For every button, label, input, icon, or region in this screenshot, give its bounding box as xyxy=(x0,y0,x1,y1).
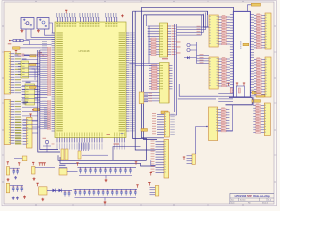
top horizontal bus A xyxy=(142,7,234,11)
net label mid U4 xyxy=(243,43,249,46)
mid bus pair A xyxy=(142,7,165,138)
wire to J6 xyxy=(196,126,208,154)
left pins of U1 xyxy=(40,33,63,132)
wire X2 to MCU pin xyxy=(49,23,55,33)
power flag below J5 ladder xyxy=(150,173,152,176)
vertical wire left of U2 xyxy=(149,26,160,64)
U4 part name text xyxy=(241,40,243,49)
capacitor C9 xyxy=(64,190,67,196)
right pins of U1 xyxy=(119,33,135,132)
ground array1 xyxy=(105,179,108,182)
bus below U4 A xyxy=(229,96,252,98)
wires J9 lower xyxy=(218,94,233,102)
power flag P1 xyxy=(7,162,9,165)
power flag cross at U1 top-right xyxy=(121,14,124,17)
diode D1 xyxy=(176,53,197,60)
svg-text:Number: Number xyxy=(240,199,246,201)
capacitor C4x in X2 xyxy=(45,25,47,26)
pins of connector J10 xyxy=(218,108,230,132)
resistor R7 xyxy=(230,88,232,93)
net label under U3 xyxy=(161,111,168,114)
wire U3 to J9 A xyxy=(179,84,218,96)
U1 part number text xyxy=(79,49,90,53)
small box P6 xyxy=(14,156,27,161)
oscillator circle X2 xyxy=(42,21,45,24)
left bus wire B xyxy=(40,50,58,150)
capacitor C10 xyxy=(68,190,71,196)
capacitor C1 in X1 xyxy=(23,19,26,21)
vertical wires right of U2 U3 xyxy=(164,24,177,115)
U1 refdes text xyxy=(57,25,61,28)
power flags below U4 xyxy=(227,83,245,86)
wire U3 to J9 B xyxy=(178,98,216,100)
net label near U5 xyxy=(30,63,37,65)
pins of connector J13 xyxy=(253,104,264,134)
mid bus pair B xyxy=(144,15,158,140)
text marks inside U1 bottom xyxy=(107,133,124,135)
net label near U6 xyxy=(30,86,37,88)
diode D3 xyxy=(59,189,62,193)
net texts upper left of U1 xyxy=(42,41,47,48)
connector J2 xyxy=(4,100,10,145)
pins of connector J11 xyxy=(254,14,265,49)
vertical feed above U2 xyxy=(146,15,148,26)
junction dot L1 xyxy=(8,40,12,44)
net label right of U4 A xyxy=(250,91,260,94)
ground P2 xyxy=(33,177,36,180)
transistor Q1 xyxy=(176,42,197,47)
decoupling capacitor array 1 xyxy=(78,167,137,178)
power flag array2 right xyxy=(136,185,138,188)
wire P2 xyxy=(35,167,55,169)
resistor pack RP3 xyxy=(78,151,81,159)
sub box outline xyxy=(236,86,244,97)
wires J3 to bus xyxy=(32,121,40,133)
regulator VR1 xyxy=(6,167,9,175)
ground X1 xyxy=(21,29,24,32)
wires into J8 left pins upper xyxy=(177,11,208,35)
connector J6 xyxy=(192,154,195,165)
pins of connector J8 xyxy=(218,15,230,45)
svg-text:LPC2138: LPC2138 xyxy=(79,49,90,53)
pins of connector J2 xyxy=(11,101,22,144)
long wire under U1 B xyxy=(60,157,156,166)
wires into J8 left pins lower xyxy=(197,54,210,63)
pins of U2 xyxy=(148,26,176,56)
wire P1 xyxy=(10,167,20,169)
IC U5 xyxy=(21,59,29,78)
pins of connector J9 xyxy=(218,57,230,87)
wires under U1 xyxy=(79,143,108,156)
pins of connector J6 xyxy=(187,156,193,164)
sheet border outer xyxy=(2,1,277,206)
bottom pins of U1 xyxy=(57,133,125,150)
regulator VR3 xyxy=(39,187,47,195)
resistor R8 xyxy=(238,88,240,93)
bus below U4 B xyxy=(226,97,253,105)
top horizontal bus C xyxy=(144,15,210,27)
power flag P2 xyxy=(32,162,34,165)
resistor pack RP1 xyxy=(61,149,64,160)
ground array2 xyxy=(104,201,107,204)
ground P1b xyxy=(14,176,17,179)
pins of connector J1 xyxy=(11,53,22,93)
svg-text:'MX': 'MX' xyxy=(247,194,253,198)
ground X2 xyxy=(37,29,40,32)
pins of U4 xyxy=(230,15,254,93)
svg-text:K9F2808: K9F2808 xyxy=(241,40,243,49)
wire X2 bottom to MCU xyxy=(45,29,56,35)
wire U9 right xyxy=(67,170,78,172)
IC U6 xyxy=(25,82,35,105)
left bus wire A xyxy=(38,50,60,152)
power flag at U1 top-left xyxy=(65,10,67,13)
power flag array1 right xyxy=(135,162,137,165)
ground P1 xyxy=(7,178,10,181)
pins of U3 xyxy=(144,65,173,101)
sheet border inner xyxy=(4,2,274,204)
IC U9 xyxy=(59,168,67,175)
value text under U2 xyxy=(162,58,168,59)
label U9 xyxy=(59,165,66,166)
capacitor C5 xyxy=(16,168,19,174)
wires U1 to U2 U3 xyxy=(129,64,157,66)
transistor Q2 xyxy=(176,47,197,52)
junction dots J10 wires xyxy=(218,130,233,131)
resistor pack RP2 xyxy=(65,149,68,160)
inductor L1 xyxy=(11,39,30,41)
power flag P1b xyxy=(18,163,20,166)
wire U5 to bus xyxy=(32,64,38,81)
wire Q cluster vertical xyxy=(196,42,198,64)
power flag above J3 xyxy=(29,114,31,117)
resistor R1 xyxy=(15,54,30,56)
bus wire right of U1 A xyxy=(133,11,147,160)
decoupling capacitor array 2 xyxy=(74,189,138,200)
net label X-left xyxy=(13,47,21,49)
crystal circuit X1 loop xyxy=(21,18,34,30)
capacitor C4 xyxy=(13,168,16,174)
diode D2 xyxy=(53,189,56,193)
connector J7 xyxy=(155,186,159,197)
connector J9 xyxy=(209,57,218,89)
wires J1/J2 ladder to bus xyxy=(22,55,38,129)
text under U6 xyxy=(23,102,29,105)
net label top-left row xyxy=(30,55,36,57)
pins of connector J4 xyxy=(152,113,175,135)
wire P4 xyxy=(47,189,72,191)
IC U4 body xyxy=(233,11,250,97)
pins of connector J3 xyxy=(15,119,27,144)
wire into J5 ladder xyxy=(151,160,156,165)
pins of U5 xyxy=(18,63,40,75)
power flag array1 left xyxy=(76,163,78,166)
net name texts left of MCU lower pins xyxy=(44,108,50,129)
ground P3b xyxy=(12,197,19,200)
wire X1 left to MCU xyxy=(26,29,55,39)
top pins of U1 xyxy=(56,13,117,27)
net label above J13 xyxy=(252,100,261,103)
svg-text:LPC213X: LPC213X xyxy=(235,194,247,198)
connector J4 xyxy=(164,112,169,137)
wire J13 to bus xyxy=(253,97,255,105)
transistor Q3 xyxy=(43,138,55,152)
voltage ref U8 xyxy=(32,167,36,175)
IC U3 latch xyxy=(160,63,170,104)
oscillator circle X1 xyxy=(25,22,30,25)
svg-text:Disk-on-chip: Disk-on-chip xyxy=(253,194,270,198)
net label at U4 top xyxy=(248,3,261,11)
pins of connector J5 xyxy=(151,141,165,173)
pins of connector J12 xyxy=(254,58,265,96)
frame zone ticks xyxy=(2,1,277,206)
wire P3 top xyxy=(10,185,23,187)
ground P4 xyxy=(41,198,44,201)
net label left of J4 xyxy=(141,129,148,132)
connector J12 xyxy=(265,57,271,97)
crystal circuit X2 loop xyxy=(37,18,49,30)
wire staircase under U1 xyxy=(113,147,141,161)
connector J1 xyxy=(4,52,10,95)
MCU U1 body xyxy=(55,22,126,138)
capacitor C2 in X1 xyxy=(30,25,32,26)
wire X1 right to MCU xyxy=(31,29,55,37)
svg-text:Size: Size xyxy=(231,199,234,201)
top horizontal bus B xyxy=(133,11,208,15)
net label right of U4 B xyxy=(250,95,264,98)
power flag near J7 xyxy=(148,183,150,186)
connector J10 xyxy=(209,107,218,141)
connector J13 xyxy=(264,103,270,136)
capacitor C3 in X2 xyxy=(39,19,42,21)
wire top-left row xyxy=(24,55,30,57)
resistor R4 xyxy=(43,54,47,56)
connector J14 xyxy=(139,92,144,104)
wires across upper left xyxy=(20,41,52,48)
IC U2 latch xyxy=(160,23,168,57)
power flag P4 xyxy=(36,183,38,186)
long wire under U1 A xyxy=(58,155,147,160)
capacitor C7 xyxy=(16,186,19,192)
connector J8 xyxy=(209,15,218,47)
pins of connector J7 xyxy=(150,187,156,195)
resistor R3 xyxy=(38,52,43,56)
connector J5 xyxy=(164,140,169,179)
power flags row xyxy=(39,163,46,166)
power flag near J6 xyxy=(183,157,185,160)
connector J11 xyxy=(265,13,271,49)
connector J3 xyxy=(27,118,33,149)
ground P3 xyxy=(23,196,26,199)
capacitor C8 xyxy=(21,186,24,192)
pins of connector J14 xyxy=(144,93,152,102)
title block xyxy=(230,193,274,204)
bus wire right of U1 B xyxy=(135,11,155,150)
power flag VCC near R1 xyxy=(15,51,17,54)
value text R5 xyxy=(114,144,120,145)
pins of U6 xyxy=(22,86,48,103)
wire J10 ladder to bus xyxy=(229,105,232,131)
net label right of U6 xyxy=(32,109,52,111)
regulator VR2 xyxy=(6,183,9,193)
capacitor C6 xyxy=(12,186,15,192)
